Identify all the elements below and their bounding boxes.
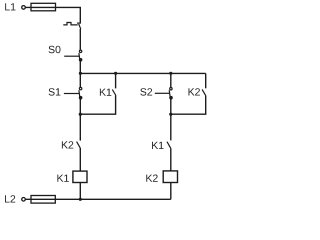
coil K1: [73, 171, 87, 182]
fuse F1: [31, 3, 56, 11]
wire: [79, 29, 81, 50]
node junction left rejoin: [79, 113, 82, 116]
wire: [79, 98, 81, 141]
node junction bus at right rail: [169, 72, 172, 75]
contact K2 break label (interlock): [62, 141, 73, 148]
node junction right rejoin: [169, 113, 172, 116]
coil K2 label: [146, 175, 157, 182]
node L1 label: [5, 3, 15, 10]
fuse F2: [31, 196, 55, 204]
terminal L2: [22, 198, 26, 202]
contact K2 break (interlock): [77, 142, 81, 148]
wire: [170, 98, 172, 141]
coil K1 label: [57, 175, 68, 182]
wire: [79, 148, 81, 171]
contact K2 label (parallel branch): [189, 88, 200, 95]
wire: [170, 148, 172, 171]
terminal L1: [22, 6, 26, 10]
wire: [79, 60, 81, 88]
pushbutton S0 (make contact): [64, 50, 82, 61]
contact K1 break (interlock): [167, 142, 171, 149]
node junction bottom rail: [79, 198, 82, 201]
pushbutton S0 label: [49, 46, 61, 53]
emergency-stop break contact (unlabeled): [63, 23, 81, 30]
wire: [79, 183, 81, 200]
coil K2: [163, 171, 177, 183]
contact K1 make (self-hold): [80, 73, 116, 114]
node junction bus at K1 branch: [114, 72, 117, 75]
contact K1 break label (interlock): [152, 142, 163, 149]
node junction bus left: [79, 72, 82, 75]
wire bottom rail: [25, 198, 171, 200]
node L2 label: [5, 195, 15, 202]
wire: [170, 183, 172, 200]
wire top rail: [25, 7, 80, 22]
pushbutton S2 label: [140, 88, 152, 95]
contact K2 make (parallel to S2): [171, 73, 206, 114]
pushbutton S2 (make contact): [155, 73, 173, 99]
contact K1 label (self-hold branch): [100, 89, 111, 96]
pushbutton S1 label: [49, 88, 61, 95]
wire bus: [80, 72, 205, 74]
pushbutton S1 (make contact): [64, 87, 82, 99]
